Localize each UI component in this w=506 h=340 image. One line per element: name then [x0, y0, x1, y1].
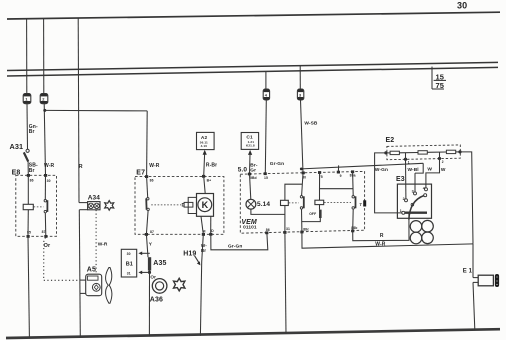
svg-text:15: 15: [436, 72, 445, 81]
svg-text:B+: B+: [207, 179, 212, 183]
relay contact 2 of VEM: [352, 172, 356, 231]
svg-text:75: 75: [436, 81, 445, 90]
lamp to coil1 wire: [251, 209, 285, 214]
svg-text:B1: B1: [126, 261, 133, 267]
svg-text:W-R: W-R: [149, 163, 159, 169]
svg-text:5.0: 5.0: [238, 167, 248, 174]
svg-text:1: 1: [400, 209, 402, 213]
resistor block E2 (dashed box): [386, 137, 461, 160]
svg-text:A34: A34: [88, 195, 101, 202]
switch A31: [10, 142, 30, 161]
E7 terminal dots: [145, 175, 148, 178]
E2 chain wires: [386, 152, 460, 153]
svg-text:Br: Br: [29, 168, 35, 174]
reference box B1: [121, 249, 136, 277]
wire VEM 31 to ground: [285, 232, 286, 333]
junction on fuse2 wire: [43, 109, 46, 112]
E3 wiper bar: [405, 212, 427, 214]
coil2 contact2 dashed link: [324, 201, 351, 203]
washer pump A5: [86, 266, 112, 303]
E8 contact: [44, 175, 46, 199]
VEM bottom terminal labels: [266, 226, 358, 232]
bus 30 line: [7, 12, 500, 19]
svg-text:87: 87: [150, 230, 154, 234]
E7 thermo switch contact: [147, 177, 148, 198]
E3 wiper arc: [409, 194, 427, 220]
svg-text:A5: A5: [87, 266, 96, 273]
svg-text:Gr: Gr: [250, 167, 256, 173]
W-Br wire from E7 M down: [202, 234, 204, 262]
svg-text:Gr-Gn: Gr-Gn: [228, 244, 242, 250]
ground bus 31: [6, 329, 500, 338]
E2 junction dots: [384, 150, 461, 161]
svg-text:W-R: W-R: [98, 242, 108, 248]
svg-text:2: 2: [42, 97, 45, 102]
svg-text:15: 15: [264, 176, 268, 180]
wire from bus 15 to fuse 4: [299, 66, 301, 89]
VEM top terminal dots: [248, 173, 251, 176]
svg-text:Or: Or: [150, 275, 156, 280]
svg-text:W-Gn: W-Gn: [375, 167, 388, 173]
fuse 1: [23, 94, 31, 104]
A5 stub wires: [80, 279, 86, 281]
relay contact 1 of VEM: [300, 174, 304, 232]
bracket for 15/75 labels: [432, 67, 446, 90]
motor K of E7: [182, 194, 213, 217]
svg-text:A31: A31: [10, 142, 24, 151]
svg-text:3: 3: [299, 93, 301, 97]
wire E2 right end to E1 vertical: [460, 152, 473, 244]
svg-text:1: 1: [408, 161, 410, 165]
svg-text:A35: A35: [153, 260, 166, 267]
svg-text:4: 4: [265, 93, 268, 97]
arrow wire to B1 lower: [138, 271, 149, 275]
wire A35 to junction: [148, 271, 150, 273]
svg-text:D: D: [211, 229, 214, 233]
wire W-SB feed line to E3 area: [300, 163, 423, 173]
Y wire from E7 87 down: [146, 234, 148, 257]
W-Gn wire E2 left to E3 terminal 1: [375, 153, 402, 213]
svg-text:K21.8: K21.8: [246, 144, 255, 148]
wire 75 to contact 2: [320, 173, 353, 189]
wire branch to E7: [45, 109, 147, 112]
E3 terminal circles and numbers: [400, 187, 428, 215]
svg-text:30: 30: [127, 252, 131, 256]
svg-text:01101: 01101: [243, 225, 257, 231]
W wire E2 tap2 to E3 terminal 4: [426, 159, 446, 188]
bulb 2 in A34: [94, 203, 99, 208]
E8 coil: [27, 175, 29, 204]
svg-text:W: W: [427, 167, 432, 173]
H19 arrow: [183, 250, 200, 265]
svg-text:7: 7: [359, 202, 362, 207]
wire A2 to E7 B+, label R-Br: [203, 154, 206, 176]
svg-text:E3: E3: [396, 176, 405, 183]
fuse 2: [40, 94, 48, 104]
svg-text:Or: Or: [44, 243, 51, 249]
svg-text:4.10: 4.10: [201, 144, 208, 148]
W-Bl wire E2 tap1 to E3 terminal 2: [406, 159, 419, 199]
R wire VEM 88b to fan: [353, 213, 409, 241]
wire fuse2 down to E8 contact, label W-R: [44, 104, 45, 176]
bulb 1 in A34: [88, 203, 93, 208]
illumination star symbol at A34: [105, 201, 114, 211]
svg-text:31: 31: [286, 227, 290, 231]
svg-text:88c: 88c: [303, 228, 309, 232]
wire from bus 30 down (R wire) to A34: [12, 18, 114, 337]
svg-text:2: 2: [403, 197, 405, 201]
relay coil 2 of VEM with OFF mark: [302, 189, 324, 222]
W-Br label: [201, 243, 207, 253]
W-R wire VEM 88c to E1: [302, 232, 473, 248]
buzzer A36: [150, 279, 167, 304]
bus 15 line: [7, 62, 498, 70]
fan switch E3: [396, 176, 432, 218]
E2 resistor 1: [390, 151, 399, 154]
Gr-Gn wire from E7 D to VEM 86: [211, 233, 268, 250]
wire A34 out down-left: [79, 209, 87, 211]
relay box E7 (dashed): [135, 170, 224, 235]
resistor A35: [148, 257, 167, 270]
E8 coil-contact dashed link: [34, 206, 44, 208]
dotted Or wire from E8 87 to R wire: [44, 238, 79, 281]
svg-text:86: 86: [150, 178, 154, 182]
svg-text:Gr-Gn: Gr-Gn: [270, 161, 284, 167]
svg-text:W-SB: W-SB: [304, 120, 318, 126]
E1 wire to ground: [473, 282, 475, 329]
svg-text:W-R: W-R: [44, 163, 54, 169]
svg-text:31: 31: [127, 272, 131, 276]
svg-text:4: 4: [423, 187, 425, 191]
svg-text:5.14: 5.14: [257, 201, 270, 208]
svg-text:R: R: [380, 233, 384, 239]
wire junction to ground: [148, 272, 150, 336]
pin 7 on VEM edge: [359, 200, 366, 207]
W wire: feed line down to terminal 3: [415, 167, 432, 192]
E7 terminal labels: [150, 178, 215, 234]
heater element E1: [463, 244, 499, 287]
svg-text:Br: Br: [29, 129, 35, 135]
E7 switch-motor dashed link: [151, 204, 181, 206]
junction node: [148, 271, 151, 274]
reference box C1 with arrow: [241, 133, 258, 155]
E2 resistor 2: [418, 151, 427, 154]
wire A31 to E8, label SB-Br: [27, 161, 29, 175]
svg-text:K: K: [202, 200, 209, 210]
svg-text:3: 3: [412, 189, 414, 193]
svg-text:1: 1: [25, 97, 28, 102]
svg-text:2: 2: [442, 160, 444, 164]
wire fuse4 to VEM 30, label W-SB: [301, 100, 304, 173]
svg-text:OFF: OFF: [309, 212, 316, 216]
svg-text:A36: A36: [150, 297, 163, 304]
svg-text:W: W: [441, 167, 446, 173]
arrow wire to B1 upper: [138, 252, 149, 256]
wire from bus 30 to fuse 2: [43, 18, 45, 94]
VEM central electric board box (dashed): [238, 167, 365, 234]
E8 terminal labels: [27, 179, 51, 235]
svg-text:Br: Br: [201, 248, 206, 253]
fuse 3: [263, 89, 269, 100]
E2 resistor 3: [446, 150, 455, 153]
dotted wire A34 to A5, label W-R: [95, 210, 97, 274]
svg-text:30: 30: [457, 1, 467, 11]
svg-text:E2: E2: [386, 137, 395, 144]
wire fuse3 to VEM 15, label Gr-Gn: [265, 100, 266, 174]
bus 75 line: [7, 67, 498, 76]
wire fuse1 to A31, label Gn-Br: [26, 104, 29, 149]
svg-text:W-R: W-R: [375, 242, 385, 248]
VEM bottom terminal dots: [265, 231, 268, 234]
fan blades: [410, 220, 433, 243]
coil1 contact dashed link: [289, 202, 299, 204]
motor B+ wire: [204, 176, 206, 193]
VEM top terminal labels: [250, 174, 356, 181]
relay coil 1 of VEM: [281, 184, 303, 232]
svg-text:9: 9: [340, 174, 342, 178]
wire from bus 75 to fuse 3: [265, 71, 267, 89]
svg-text:Y: Y: [149, 242, 153, 248]
svg-text:5Bd: 5Bd: [250, 176, 257, 180]
svg-text:W-Bl: W-Bl: [408, 167, 419, 173]
svg-text:86: 86: [266, 228, 270, 232]
svg-text:86: 86: [30, 179, 34, 183]
svg-text:30: 30: [47, 179, 51, 183]
illumination star symbol at A36: [174, 278, 185, 291]
fuse 4: [297, 89, 303, 100]
E8 85 wire to ground: [28, 236, 29, 336]
terminal 9 stub: [337, 165, 339, 172]
E8 terminal dots: [27, 174, 30, 177]
reference box A2 with arrow: [197, 132, 215, 154]
svg-text:R: R: [79, 164, 83, 170]
indicator lamp 5.14: [246, 174, 270, 209]
svg-text:R-Br: R-Br: [206, 163, 217, 169]
wire branch down to E7 terminal, label W-R: [146, 111, 149, 177]
svg-text:E 1: E 1: [463, 268, 473, 274]
svg-text:87: 87: [42, 230, 46, 234]
motor bottom wires to M and D: [201, 216, 203, 234]
E2 tap stubs and tap labels: [406, 152, 444, 164]
wire from bus 30 to fuse 1: [26, 19, 28, 94]
relay box E8 (dashed): [12, 170, 57, 237]
svg-text:E7: E7: [136, 170, 145, 177]
wire C1 to VEM 5Bd, label Br-Gr: [249, 155, 252, 174]
